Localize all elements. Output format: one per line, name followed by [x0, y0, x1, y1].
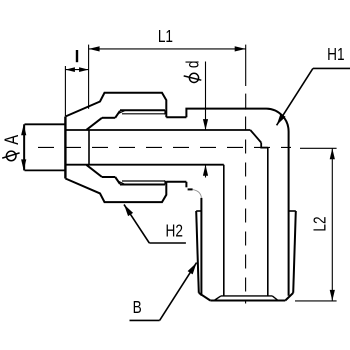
dimension phi-d	[205, 62, 207, 178]
dimension L2	[295, 148, 337, 301]
leader H2	[124, 205, 186, 244]
neck between nut and body	[166, 117, 186, 182]
svg-text:d: d	[184, 61, 203, 69]
svg-text:H1: H1	[327, 46, 344, 65]
nut N1	[65, 93, 166, 202]
thread bottom inner edge	[215, 296, 278, 300]
svg-text:B: B	[133, 298, 142, 317]
center line vertical leg	[245, 117, 247, 304]
dimension L1	[89, 45, 246, 110]
body B1 elbow outline	[186, 109, 288, 296]
svg-text:H2: H2	[165, 222, 182, 241]
male thread T1	[196, 211, 296, 301]
center line horizontal	[38, 146, 291, 148]
ferrule sleeve top	[87, 110, 165, 130]
bore lines	[66, 130, 267, 296]
svg-text:L2: L2	[311, 216, 330, 231]
leader H1	[277, 68, 350, 125]
body fillet	[193, 190, 202, 198]
tube	[25, 124, 66, 170]
svg-text:L1: L1	[158, 27, 173, 46]
dimension phi-A	[23, 124, 25, 170]
leader B	[130, 263, 197, 321]
dimension I	[65, 66, 88, 116]
label I	[76, 50, 78, 62]
ferrule sleeve bottom	[87, 165, 165, 185]
svg-text:A: A	[1, 134, 22, 144]
